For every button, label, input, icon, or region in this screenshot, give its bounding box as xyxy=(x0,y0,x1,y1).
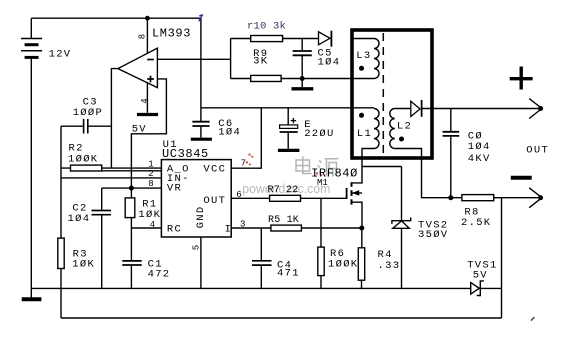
arrow output minus xyxy=(529,188,543,208)
capacitor E 220U electrolytic xyxy=(280,108,298,149)
wire feedback rail xyxy=(61,317,502,319)
svg-text:VR: VR xyxy=(167,182,182,194)
svg-text:L1: L1 xyxy=(357,128,372,140)
svg-text:OUT: OUT xyxy=(203,195,226,207)
wire L3 top xyxy=(352,38,374,40)
watermark 源 xyxy=(318,159,339,177)
svg-text:5: 5 xyxy=(191,245,201,250)
wire L2 bottom return xyxy=(395,149,451,198)
capacitor C6 104 xyxy=(192,122,209,138)
resistor R6 100K xyxy=(318,198,324,288)
resistor R7 22 xyxy=(270,195,301,201)
wire pin8 xyxy=(61,177,161,179)
label plus input xyxy=(147,76,154,83)
transformer core (dashed) xyxy=(382,33,384,154)
svg-text:R7 22: R7 22 xyxy=(268,185,299,196)
node C0/R8 junction xyxy=(448,195,453,200)
svg-text:L3: L3 xyxy=(356,50,371,62)
wire output minus xyxy=(451,197,542,199)
svg-text:4: 4 xyxy=(140,98,150,103)
node L3 phase dot xyxy=(359,66,364,71)
capacitor C1 472 xyxy=(122,261,141,289)
svg-text:R5 1K: R5 1K xyxy=(268,215,299,226)
wire op-amp output xyxy=(111,69,118,169)
annotation blue tick xyxy=(199,15,203,22)
svg-text:1ØØP: 1ØØP xyxy=(73,107,103,119)
capacitor C2 104 xyxy=(92,188,112,288)
svg-text:GND: GND xyxy=(195,205,207,228)
node L2 phase dot xyxy=(399,137,404,142)
svg-text:RC: RC xyxy=(167,223,182,235)
watermark 电 xyxy=(296,156,312,173)
svg-text:1ØK: 1ØK xyxy=(72,258,95,270)
svg-text:2: 2 xyxy=(148,169,153,179)
wire drain branch xyxy=(361,159,363,167)
ground (battery) xyxy=(22,297,42,301)
wire R3/feedback column xyxy=(60,126,62,238)
svg-text:OUT: OUT xyxy=(526,145,549,157)
svg-text:8: 8 xyxy=(148,179,153,189)
svg-text:35ØV: 35ØV xyxy=(418,229,448,241)
svg-text:3: 3 xyxy=(240,219,245,229)
IC U1 UC3845 xyxy=(161,160,231,237)
resistor R3 10K xyxy=(58,238,64,318)
wire ground rail xyxy=(31,287,470,289)
diode D2 (output rectifier) xyxy=(411,100,422,117)
diode TVS1 5V xyxy=(471,281,502,296)
wire op-amp inverting input xyxy=(157,58,230,60)
plus terminal symbol xyxy=(510,67,533,90)
node L1 phase dot xyxy=(359,113,364,118)
svg-text:5V: 5V xyxy=(132,124,147,136)
wire pin5 GND xyxy=(200,237,202,288)
wire pin6 OUT to gate xyxy=(231,197,346,199)
capacitor C5 104 xyxy=(293,39,312,88)
diode TVS2 350V xyxy=(392,167,411,289)
inductor L3 winding xyxy=(374,39,379,79)
resistor R1 10K xyxy=(125,188,135,260)
wire 12V rail to transformer xyxy=(201,107,374,109)
svg-text:3K: 3K xyxy=(253,56,268,68)
wire L2 top to diode xyxy=(395,108,411,110)
wire pin7 VCC xyxy=(231,108,261,168)
wire L1 bottom xyxy=(362,149,374,159)
svg-text:4KV: 4KV xyxy=(468,153,491,165)
resistor R4 .33 xyxy=(358,228,364,288)
minus terminal symbol xyxy=(511,176,532,180)
op-amp U2 LM393 xyxy=(118,48,157,88)
node R1 top xyxy=(129,186,134,191)
svg-text:1Ø4: 1Ø4 xyxy=(318,57,341,69)
wire vertical C6 feed xyxy=(200,18,202,121)
annotation small tick bottom right xyxy=(531,317,535,321)
transformer T1 shield box xyxy=(352,30,432,158)
resistor R9a (top) xyxy=(231,36,319,42)
wire VR row xyxy=(102,187,162,189)
svg-text:471: 471 xyxy=(277,268,300,280)
wire pin2 xyxy=(102,170,162,172)
svg-text:12V: 12V xyxy=(49,49,72,61)
label minus input xyxy=(147,59,154,61)
wire pin3 to source xyxy=(231,227,362,229)
node MOSFET source junction xyxy=(359,226,364,231)
node C5 junction xyxy=(300,76,305,81)
battery B1 12V xyxy=(21,18,42,297)
wire output plus xyxy=(422,108,542,110)
wire op-amp non-inverting input xyxy=(131,79,166,188)
resistor R8 2.5K xyxy=(462,195,494,201)
svg-text:LM393: LM393 xyxy=(152,26,191,40)
svg-text:1Ø4: 1Ø4 xyxy=(68,213,91,225)
svg-text:VCC: VCC xyxy=(203,163,226,175)
svg-text:1ØØK: 1ØØK xyxy=(68,153,98,165)
transistor Q1 IRF840 MOSFET xyxy=(347,167,362,229)
svg-text:L2: L2 xyxy=(397,120,412,132)
svg-text:1Ø4: 1Ø4 xyxy=(218,127,241,139)
svg-text:4: 4 xyxy=(150,220,155,230)
capacitor C4 471 xyxy=(252,228,272,288)
diode D1 (snubber) xyxy=(319,31,332,47)
inductor L2 winding xyxy=(390,109,395,149)
resistor R9b (bottom) xyxy=(231,75,374,81)
inductor L1 winding xyxy=(374,109,379,149)
wire top rail 12V xyxy=(31,17,201,19)
wire R8 right drop xyxy=(501,198,503,318)
ground (E cap) xyxy=(278,149,300,152)
svg-text:r10 3k: r10 3k xyxy=(247,20,286,32)
svg-text:6: 6 xyxy=(236,190,241,200)
svg-text:1Ø4: 1Ø4 xyxy=(468,141,491,153)
ground (C5) xyxy=(292,87,314,90)
svg-text:.33: .33 xyxy=(378,260,401,272)
resistor R2 100K xyxy=(71,165,102,171)
wire LM393 pin 4 xyxy=(146,81,148,113)
capacitor C0 104 4KV xyxy=(443,109,460,198)
svg-text:8: 8 xyxy=(138,34,148,39)
svg-text:1: 1 xyxy=(148,159,153,169)
ground (C6) xyxy=(191,138,212,141)
svg-text:1ØØK: 1ØØK xyxy=(328,259,358,271)
svg-text:I: I xyxy=(225,223,233,235)
wire LM393 pin 8 xyxy=(146,18,148,55)
svg-text:7: 7 xyxy=(241,159,246,169)
svg-text:2.5K: 2.5K xyxy=(461,217,491,229)
annotation red specks xyxy=(246,154,322,177)
ground 5V (LM393 pin4) xyxy=(137,113,158,116)
wire R9 left connector xyxy=(230,39,232,79)
svg-text:UC3845: UC3845 xyxy=(162,147,209,161)
svg-text:M1: M1 xyxy=(317,178,328,188)
node top rail junction xyxy=(145,16,150,21)
svg-text:1ØK: 1ØK xyxy=(138,209,161,221)
capacitor C3 100P xyxy=(61,119,111,134)
resistor R5 1K xyxy=(271,225,302,231)
wire pin1 (R2 row) xyxy=(61,167,161,169)
svg-text:5V: 5V xyxy=(473,269,488,281)
wire pin4 RC xyxy=(131,227,161,229)
arrow output plus xyxy=(529,99,543,119)
svg-text:472: 472 xyxy=(148,268,171,280)
svg-text:22ØU: 22ØU xyxy=(304,128,334,140)
